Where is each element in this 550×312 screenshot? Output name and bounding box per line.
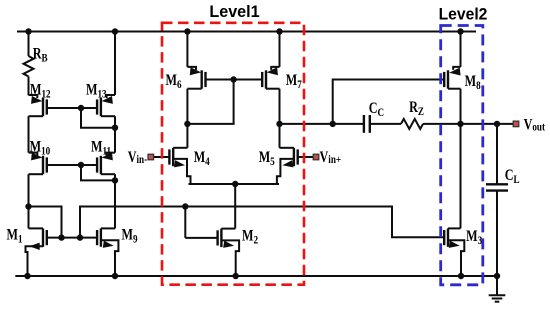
wire tail current down (234, 184, 236, 229)
node M8 drain output (457, 121, 463, 127)
node M4-M5 common source (232, 181, 238, 187)
wire M11 drain down to M9 (114, 174, 116, 228)
wire Vin- to M4 gate (154, 156, 170, 158)
wire RZ to Vout (423, 123, 513, 125)
node M8 gate tap (330, 121, 336, 127)
node M6-M7 gates (230, 76, 236, 82)
transistor M7 (262, 67, 279, 89)
node rail-RB junction (25, 28, 31, 34)
node rail-M8 junction (457, 28, 463, 34)
node M13 drain diode (112, 125, 118, 131)
wire M8 drain to output node and down to M3 (460, 89, 462, 229)
wire M8 gate riser (333, 80, 445, 124)
transistor M8 (444, 67, 460, 89)
node M2 gate tap (182, 203, 188, 209)
wire M7 drain / M5 drain column (279, 89, 281, 148)
capacitor CC (364, 115, 370, 133)
node first stage output (276, 121, 282, 127)
terminal Vin- port (148, 154, 154, 160)
wire M5 gate to Vin+ (298, 156, 314, 158)
terminal Vin+ port (313, 154, 319, 160)
node M11 drain diode (112, 177, 118, 183)
svg-text:Level2: Level2 (439, 5, 488, 23)
node GND M3 (458, 273, 464, 279)
wire M12-M13 gate node down (81, 108, 115, 128)
transistor M11 (97, 152, 115, 174)
node bias line tie (77, 234, 83, 240)
wire GND bottom rail (15, 275, 497, 277)
transistor M3 (444, 228, 464, 276)
node rail-M7 junction (276, 28, 282, 34)
wire rail to M7 source (279, 32, 281, 67)
node GND CL (494, 273, 500, 279)
node rail-M13 junction (112, 28, 118, 34)
wire M6 drain down to M4 (186, 89, 188, 148)
transistor M5 (277, 148, 298, 184)
wire bias line left segment node A (29, 207, 62, 238)
wire rail to RB (28, 32, 30, 57)
svg-text:Level1: Level1 (209, 3, 259, 21)
transistor M10 (29, 152, 47, 174)
node GND M9 (112, 273, 118, 279)
wire rail to M13 source (114, 32, 116, 96)
node GND M1 (24, 273, 30, 279)
wire M12 gate to M13 gate (47, 107, 97, 109)
transistor M12 (29, 95, 47, 116)
wire CC to RZ (370, 123, 401, 125)
wire rail to M8 source (460, 32, 462, 67)
node M6 drain diode (184, 121, 190, 127)
node CL tap (494, 121, 500, 127)
node M1 gate tie (58, 234, 64, 240)
node M10-M11 gates (78, 162, 84, 168)
node M12-M13 gates (78, 105, 84, 111)
terminal Vout port (513, 121, 519, 127)
wire bias line right segment to M3 gate (80, 207, 444, 238)
transistor M1 (26, 228, 47, 276)
node GND M2 (233, 273, 239, 279)
transistor M6 (187, 67, 205, 89)
capacitor CL (486, 184, 508, 190)
wire M10 gate to M11 gate (47, 164, 97, 166)
wire VDD top rail (17, 31, 476, 33)
transistor M13 (97, 95, 115, 116)
wire M2 gate riser (184, 207, 186, 238)
wire M10 source down to bias node (28, 174, 30, 228)
wire output node down to CL (496, 124, 498, 184)
resistor RB (24, 56, 34, 77)
transistor M2 (185, 229, 239, 276)
wire CL to ground rail (496, 191, 498, 276)
wire rail to M6 source (186, 32, 188, 67)
wire M10-M11 gate node down (81, 165, 115, 180)
wire M6 gate to M7 gate (206, 79, 263, 81)
ground (489, 276, 506, 302)
wire M12 drain down to M10 (28, 116, 30, 152)
wire M13 drain down to M11 (114, 116, 116, 152)
wire M6 diode connection (187, 80, 233, 124)
Level1 boundary box (162, 23, 304, 285)
wire M4-M5 common source to M2 drain (189, 183, 280, 185)
transistor M4 (169, 148, 190, 184)
wire RB to M12 source (28, 77, 30, 96)
resistor RZ (401, 119, 423, 129)
transistor M9 (97, 228, 118, 276)
wire M1 gate to M9 gate (47, 237, 97, 239)
node bias M10 source (25, 203, 31, 209)
Level2 boundary box (441, 26, 483, 285)
node rail-M6 junction (184, 28, 190, 34)
wire first stage output (280, 123, 364, 125)
